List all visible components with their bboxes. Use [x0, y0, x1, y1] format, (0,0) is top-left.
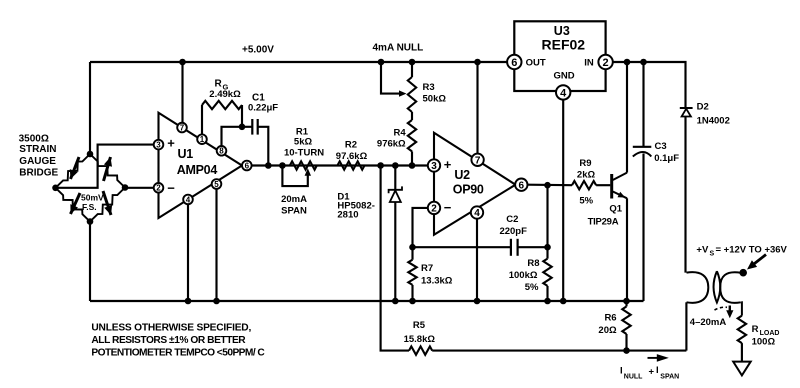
svg-text:7: 7 [475, 155, 481, 166]
junction R7 ground [409, 298, 416, 305]
potentiometer R3 [411, 62, 413, 77]
wire U3 GND down [562, 100, 564, 301]
svg-text:3: 3 [156, 140, 161, 149]
resistor RG [202, 101, 242, 109]
junction Q1 collector top [624, 59, 631, 66]
svg-text:4–20mA: 4–20mA [690, 317, 727, 328]
svg-text:Q1: Q1 [609, 204, 622, 215]
pin 5 U1 [212, 179, 222, 189]
wire U2 pin7 feed [476, 62, 478, 156]
svg-text:15.8kΩ: 15.8kΩ [404, 334, 436, 345]
svg-text:R3: R3 [423, 82, 435, 93]
wire twisted pair right ring [720, 272, 741, 303]
svg-text:GND: GND [553, 71, 574, 82]
svg-text:R: R [215, 78, 223, 89]
wire U2 pin2 left [413, 208, 428, 247]
pin 2 U3 IN [598, 55, 612, 69]
svg-text:+V: +V [696, 245, 709, 256]
svg-text:−: − [167, 181, 175, 196]
junction C1 drop [265, 162, 272, 169]
voltage reference U3 box [514, 21, 605, 91]
svg-text:R7: R7 [421, 263, 433, 274]
svg-text:IN: IN [584, 58, 594, 69]
junction C3 top [640, 59, 647, 66]
node INULL ISPAN arrow [648, 357, 659, 359]
wire R3 wiper feed [381, 62, 401, 94]
wire Q1 collector [626, 63, 628, 173]
wire R5 left leg [381, 166, 409, 351]
svg-text:2kΩ: 2kΩ [577, 169, 596, 180]
node +VS arrow [750, 255, 766, 268]
svg-text:C2: C2 [506, 214, 518, 225]
resistor RLOAD [738, 316, 746, 344]
svg-text:0.22μF: 0.22μF [248, 103, 278, 114]
svg-text:NULL: NULL [624, 374, 643, 381]
svg-text:I: I [620, 366, 623, 377]
pin 7 U2 [471, 154, 483, 166]
junction pin4 ground [185, 298, 192, 305]
pin 4 U1 [183, 195, 193, 205]
junction R4 drop [409, 162, 416, 169]
wire RG right leg [241, 105, 243, 127]
svg-text:BRIDGE: BRIDGE [19, 168, 58, 179]
wire bridge top feed [89, 62, 91, 154]
pin 6 U3 OUT [507, 55, 521, 69]
resistor R4 [411, 112, 413, 120]
junction R3 top [409, 59, 416, 66]
svg-text:50kΩ: 50kΩ [423, 94, 447, 105]
strain gauge top-left [56, 154, 91, 188]
svg-text:SPAN: SPAN [281, 206, 307, 217]
wire loop return up [685, 302, 687, 350]
svg-text:OUT: OUT [526, 58, 546, 69]
capacitor C2 [510, 239, 512, 256]
junction pin5 ground [213, 298, 220, 305]
junction U1 pin7 supply [179, 59, 186, 66]
svg-text:R4: R4 [394, 128, 407, 139]
pin 4 U2 [471, 206, 483, 218]
svg-text:8: 8 [219, 147, 224, 156]
junction pin2 C2 R7 [409, 244, 416, 251]
pin 2 U1 [154, 183, 164, 193]
resistor R5 [409, 346, 432, 354]
svg-text:S: S [710, 251, 715, 258]
svg-text:D2: D2 [697, 102, 709, 113]
svg-text:4: 4 [186, 195, 191, 204]
wire twisted pair left ring [687, 272, 709, 303]
svg-text:U1: U1 [178, 147, 194, 161]
pin 6 U2 [515, 179, 527, 191]
svg-text:97.6kΩ: 97.6kΩ [336, 151, 368, 162]
svg-text:TIP29A: TIP29A [588, 216, 619, 227]
wire twisted pair lens [714, 271, 721, 302]
node bridge right [122, 184, 129, 191]
wire C2 left [413, 246, 511, 248]
svg-text:220pF: 220pF [499, 226, 527, 237]
node +VS terminal [741, 272, 743, 274]
svg-text:POTENTIOMETER TEMPCO <50PPM/ C: POTENTIOMETER TEMPCO <50PPM/ C [91, 347, 265, 358]
svg-text:2: 2 [603, 57, 609, 69]
wire bottom line [432, 350, 686, 352]
svg-text:20mA: 20mA [281, 194, 307, 205]
svg-text:R2: R2 [345, 140, 357, 151]
wire bridge bottom to ground [89, 222, 91, 301]
node bridge bottom [87, 218, 94, 225]
svg-text:C3: C3 [655, 141, 667, 152]
svg-text:7: 7 [180, 123, 185, 132]
wire U2 pin4 down [476, 219, 478, 301]
junction output R8 [544, 182, 551, 189]
svg-text:+: + [649, 367, 655, 378]
svg-text:10-TURN: 10-TURN [284, 147, 324, 158]
resistor R9 [572, 181, 596, 189]
resistor R6 [625, 301, 627, 306]
svg-text:5%: 5% [579, 196, 593, 207]
svg-text:OP90: OP90 [453, 183, 484, 197]
wire C2 right [518, 246, 548, 248]
wire ground rail [90, 300, 644, 302]
svg-text:6: 6 [511, 57, 517, 69]
pin 8 U1 [217, 146, 227, 156]
junction D1 ground [392, 298, 399, 305]
svg-text:R5: R5 [413, 320, 426, 331]
svg-text:5%: 5% [525, 282, 539, 293]
svg-text:1: 1 [200, 135, 205, 144]
svg-text:REF02: REF02 [542, 37, 586, 53]
svg-text:100kΩ: 100kΩ [509, 270, 538, 281]
wiper arrow R1 [307, 172, 309, 178]
svg-text:2.49kΩ: 2.49kΩ [209, 89, 241, 100]
wire bridge left to U1 pin3 [59, 145, 155, 188]
svg-text:4: 4 [560, 87, 567, 99]
wire +5V rail [90, 61, 507, 63]
junction RG C1 [239, 124, 246, 131]
junction R6 bottom [623, 347, 630, 354]
node 4-20mA arrow [715, 307, 728, 310]
svg-text:U2: U2 [454, 168, 470, 182]
svg-text:5: 5 [214, 180, 219, 189]
wire pin1 up [201, 105, 203, 134]
junction C2 R8 [544, 244, 551, 251]
svg-text:13.3kΩ: 13.3kΩ [421, 276, 453, 287]
wire bridge right to U1 pin2 [128, 187, 154, 189]
junction R5 drop [377, 162, 384, 169]
svg-text:3: 3 [431, 161, 437, 172]
svg-text:6: 6 [519, 180, 525, 191]
junction U2 pin7 supply [474, 59, 481, 66]
capacitor C3 [642, 62, 644, 147]
wire RLOAD to ground [741, 343, 743, 362]
svg-text:4mA NULL: 4mA NULL [373, 43, 424, 54]
svg-text:20Ω: 20Ω [598, 325, 617, 336]
strain gauge bottom-left [56, 188, 91, 222]
op-amp U2 triangle [434, 133, 516, 235]
svg-text:F.S.: F.S. [82, 202, 97, 212]
wire U1 pin7 feed [181, 62, 183, 123]
svg-text:UNLESS OTHERWISE SPECIFIED,: UNLESS OTHERWISE SPECIFIED, [91, 322, 251, 333]
svg-text:AMP04: AMP04 [177, 163, 218, 177]
junction emitter R6 [623, 298, 630, 305]
svg-text:0.1μF: 0.1μF [654, 153, 679, 164]
svg-text:ALL RESISTORS ±1% OR BETTER: ALL RESISTORS ±1% OR BETTER [91, 335, 246, 346]
svg-text:2810: 2810 [337, 210, 358, 221]
junction D1 drop [392, 162, 399, 169]
svg-text:2: 2 [156, 184, 161, 193]
svg-text:I: I [656, 365, 659, 376]
svg-text:R8: R8 [527, 258, 539, 269]
svg-text:R9: R9 [579, 158, 591, 169]
junction 4mA null [378, 59, 385, 66]
svg-text:= +12V TO +36V: = +12V TO +36V [716, 245, 788, 256]
svg-text:+5.00V: +5.00V [242, 45, 274, 56]
wire U1 pin5 to ground [215, 189, 217, 301]
svg-text:R6: R6 [604, 312, 616, 323]
wire U1 pin4 to ground [187, 204, 189, 301]
strain gauge bottom-right [90, 188, 125, 222]
pin 7 U1 [177, 123, 187, 133]
svg-text:R: R [752, 324, 759, 335]
resistor R8 [546, 185, 548, 258]
pin 3 U1 [154, 140, 164, 150]
wire pin8 up [222, 127, 243, 146]
junction R8 ground [544, 298, 551, 305]
svg-text:+: + [167, 136, 175, 151]
wire to C1 [242, 126, 252, 128]
svg-text:6: 6 [245, 161, 250, 170]
svg-text:100Ω: 100Ω [752, 337, 776, 348]
wire U1 output [252, 164, 428, 166]
pin 2 U2 [428, 202, 440, 214]
svg-text:976kΩ: 976kΩ [377, 139, 406, 150]
wire to RLOAD [740, 302, 743, 315]
svg-text:5kΩ: 5kΩ [294, 136, 313, 147]
potentiometer R1 [290, 161, 317, 169]
capacitor C1 [251, 119, 253, 135]
junction R1 left [279, 162, 286, 169]
svg-text:GAUGE: GAUGE [19, 156, 56, 167]
wire Q1 emitter [626, 198, 628, 301]
pin 6 U1 [242, 161, 252, 171]
svg-text:SPAN: SPAN [660, 374, 679, 381]
svg-text:3500Ω: 3500Ω [19, 133, 49, 144]
resistor R7 [408, 260, 416, 285]
strain gauge top-right [90, 154, 125, 188]
wire IN to D2 corner [613, 62, 686, 107]
node bridge top [87, 151, 94, 158]
diode D2 [680, 107, 693, 109]
svg-text:+: + [444, 157, 452, 172]
svg-text:4: 4 [474, 208, 480, 219]
svg-text:1N4002: 1N4002 [697, 115, 730, 126]
junction U2 pin4 ground [474, 298, 481, 305]
pin 1 U1 [197, 134, 207, 144]
node bridge left [52, 185, 59, 192]
svg-text:2: 2 [431, 204, 437, 215]
wire U2 output [528, 184, 573, 187]
ground symbol [733, 362, 751, 376]
junction U3 GND ground [560, 298, 567, 305]
svg-text:STRAIN: STRAIN [19, 144, 56, 155]
transistor Q1 [610, 174, 613, 199]
wire R9 to Q1 base [596, 184, 610, 186]
wire R1 span loop [282, 166, 307, 187]
resistor R2 [337, 161, 364, 169]
svg-text:50mV: 50mV [81, 193, 104, 203]
diode D1 [394, 166, 396, 190]
svg-text:−: − [444, 200, 452, 215]
op-amp U1 triangle [159, 113, 243, 218]
wire C1 to output [258, 127, 269, 166]
pin 3 U2 [428, 159, 440, 171]
